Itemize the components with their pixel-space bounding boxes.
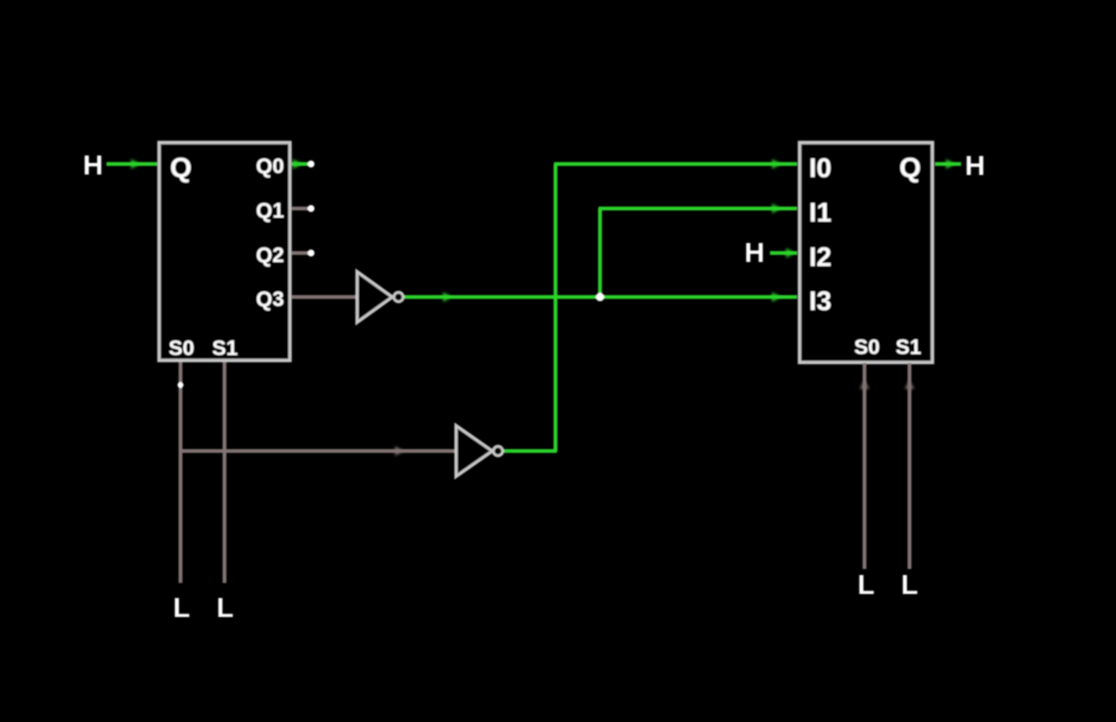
svg-text:S0: S0 [854,336,880,359]
arrowhead on mux S1 wire [905,380,915,389]
svg-text:H: H [83,150,103,181]
wire Q0 stub (high) [292,162,309,166]
svg-text:I2: I2 [809,242,832,272]
svg-text:Q: Q [170,152,192,183]
node Q2 open terminal dot [308,250,315,257]
inverter U4 bubble [493,446,503,456]
svg-text:Q0: Q0 [256,155,284,178]
arrowhead near I0 pin [772,159,781,169]
wire S0 demux down (low) [179,362,183,583]
arrowhead on Q output wire [946,159,955,169]
wire Q1 stub (low) [292,207,309,211]
wire H to demux Q input [107,162,158,166]
svg-text:L: L [857,569,874,600]
wire Q3 to inverter U3 [292,295,357,299]
svg-text:L: L [173,592,190,623]
inverter U3 triangle [357,272,393,323]
arrowhead on H wire [131,159,140,169]
svg-text:I0: I0 [809,153,832,183]
node junction dot I1 tap [596,293,605,302]
svg-text:Q: Q [899,152,921,183]
demultiplexer U1 [159,143,290,361]
wire S0 tap to inverter U4 input [181,449,457,453]
arrowhead on U4 input wire [395,446,404,456]
wire S1 mux down (low) [908,363,912,569]
svg-text:Q2: Q2 [256,244,284,267]
arrowhead near I1 pin [772,204,781,214]
wire vertical from inverter U4 up [554,164,558,451]
svg-text:S1: S1 [896,336,922,359]
inverter U4 triangle [456,426,493,477]
wire inverter U4 output to vertical [504,449,557,453]
wire H to mux I2 [770,251,797,255]
wire horizontal to mux I0 [554,162,797,166]
svg-text:Q1: Q1 [256,200,284,223]
svg-text:I1: I1 [809,198,832,228]
node Q1 open terminal dot [308,205,315,212]
node Q0 open terminal dot [308,161,315,168]
arrowhead on Q0 stub [293,159,302,169]
arrowhead on mux S0 wire [860,380,870,389]
multiplexer U2 [800,143,933,363]
svg-text:Q3: Q3 [256,288,284,311]
wire S0 mux down (low) [863,363,867,569]
svg-text:H: H [744,237,764,268]
wire Q2 stub (low) [292,251,309,255]
svg-text:L: L [901,569,918,600]
svg-text:L: L [216,592,233,623]
node dot on S0 wire [178,382,184,388]
svg-text:S0: S0 [169,337,195,360]
svg-text:S1: S1 [212,337,238,360]
arrowhead near I3 pin [772,292,781,302]
wire S1 demux down (low) [223,362,227,583]
wire inverter U3 output to mux I3 [405,295,798,299]
arrowhead on U3 output wire [443,292,452,302]
inverter U3 bubble [394,292,404,302]
wire horizontal to mux I1 [599,207,798,211]
arrowhead near I2 pin [786,248,795,258]
svg-text:I3: I3 [809,286,832,316]
wire vertical I1 branch [598,209,602,298]
wire mux Q output to H [935,162,961,166]
svg-text:H: H [965,150,985,181]
